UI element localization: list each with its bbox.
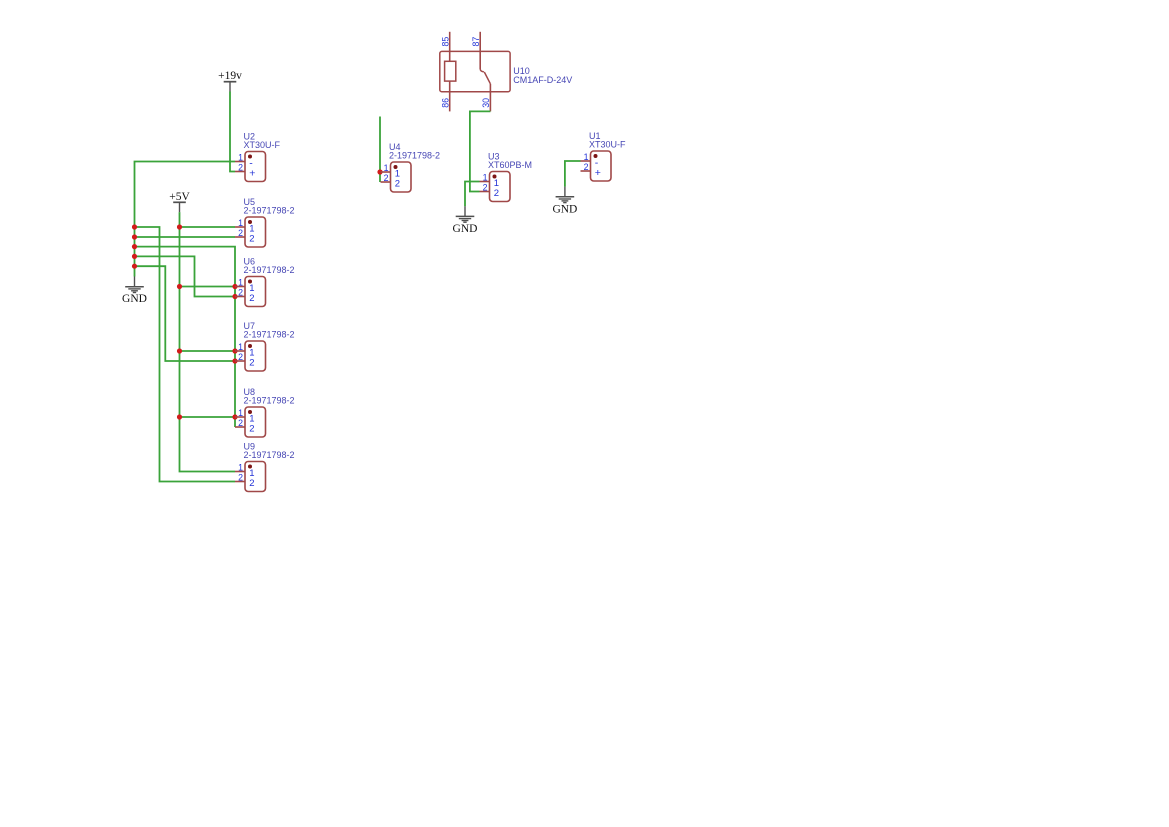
U10 switch contact hook bbox=[480, 69, 484, 72]
svg-text:30: 30 bbox=[481, 98, 491, 108]
wire GND tap 4 to U6 pin 2 bbox=[135, 256, 236, 296]
U10 pin 87 bbox=[479, 32, 481, 69]
svg-text:2: 2 bbox=[249, 233, 254, 244]
svg-text:2-1971798-2: 2-1971798-2 bbox=[389, 150, 440, 160]
svg-text:1: 1 bbox=[238, 278, 243, 288]
svg-text:2: 2 bbox=[249, 293, 254, 304]
U1 body bbox=[591, 151, 612, 181]
U2 pin-1 marker dot bbox=[248, 155, 252, 159]
U5 pin 2 stub bbox=[235, 236, 245, 238]
wire +5V tap to U5 pin 1 bbox=[180, 226, 236, 228]
svg-text:1: 1 bbox=[384, 163, 389, 173]
svg-text:2: 2 bbox=[249, 478, 254, 489]
U7 pin 1 stub bbox=[235, 350, 245, 352]
U8 body bbox=[245, 407, 266, 437]
svg-text:2-1971798-2: 2-1971798-2 bbox=[244, 205, 295, 215]
junction +5V at U7 pin 1 row bbox=[177, 348, 182, 353]
svg-text:2-1971798-2: 2-1971798-2 bbox=[244, 329, 295, 339]
svg-text:XT60PB-M: XT60PB-M bbox=[488, 160, 532, 170]
svg-text:XT30U-F: XT30U-F bbox=[589, 139, 626, 149]
svg-text:1: 1 bbox=[584, 152, 589, 162]
wire +5V bus down to U9 pin 1 bbox=[180, 212, 236, 471]
connector U6 (2-1971798-2) bbox=[235, 256, 295, 306]
svg-text:GND: GND bbox=[453, 223, 478, 235]
svg-text:GND: GND bbox=[122, 293, 147, 305]
U6 pin 2 stub bbox=[235, 296, 245, 298]
svg-text:2: 2 bbox=[238, 418, 243, 428]
junction GND bus tap 2 bbox=[132, 234, 137, 239]
ground symbol GND (left bus) bbox=[122, 277, 147, 306]
U10 pin 30 bbox=[489, 84, 491, 112]
wire +5V tap to U7 pin 1 bbox=[180, 350, 236, 352]
U9 pin 1 stub bbox=[235, 471, 245, 473]
wire stub into U4 pins (dangling at top) bbox=[379, 117, 381, 183]
power symbol +5V bbox=[169, 191, 190, 212]
svg-text:CM1AF-D-24V: CM1AF-D-24V bbox=[513, 75, 572, 85]
U9 pin 2 stub bbox=[235, 481, 245, 483]
U7 pin-1 marker dot bbox=[248, 344, 252, 348]
connector U7 (2-1971798-2) bbox=[235, 321, 295, 371]
U2 body bbox=[245, 152, 266, 182]
U4 pin-1 marker dot bbox=[394, 165, 398, 169]
connector U9 (2-1971798-2) bbox=[235, 441, 295, 491]
svg-text:+5V: +5V bbox=[169, 191, 190, 203]
connector U2 (XT30U-F) bbox=[235, 131, 281, 181]
U3 body bbox=[490, 172, 511, 202]
connector U3 (XT60PB-M) bbox=[480, 151, 533, 201]
svg-text:87: 87 bbox=[471, 37, 481, 47]
svg-text:+19v: +19v bbox=[218, 70, 242, 82]
connector U8 (2-1971798-2) bbox=[235, 387, 295, 437]
svg-text:2-1971798-2: 2-1971798-2 bbox=[244, 450, 295, 460]
svg-text:2: 2 bbox=[249, 423, 254, 434]
junction +5V at U8 pin 1 row bbox=[177, 414, 182, 419]
U8 pin-1 marker dot bbox=[248, 410, 252, 414]
U6 body bbox=[245, 277, 266, 307]
wire U3 pin 1 to GND bbox=[465, 182, 480, 207]
U10 coil bbox=[445, 61, 456, 81]
svg-text:2: 2 bbox=[238, 288, 243, 298]
junction at U7 pin 1 bbox=[232, 348, 237, 353]
U5 body bbox=[245, 217, 266, 247]
U10 body bbox=[440, 51, 510, 91]
svg-text:2: 2 bbox=[238, 163, 243, 173]
wire +5V tap to U8 pin 1 bbox=[180, 416, 236, 418]
junction GND bus tap 4 bbox=[132, 254, 137, 259]
svg-text:1: 1 bbox=[238, 342, 243, 352]
svg-text:XT30U-F: XT30U-F bbox=[244, 140, 281, 150]
U2 pin 2 stub bbox=[235, 171, 245, 173]
U1 pin 1 stub bbox=[581, 160, 591, 162]
svg-text:86: 86 bbox=[440, 98, 450, 108]
U5 pin 1 stub bbox=[235, 226, 245, 228]
U4 pin 1 stub bbox=[381, 171, 391, 173]
junction at U8 pin 1 bbox=[232, 414, 237, 419]
ground symbol GND (below U1) bbox=[552, 187, 577, 216]
svg-text:2: 2 bbox=[238, 228, 243, 238]
svg-text:1: 1 bbox=[238, 463, 243, 473]
wire U2 pin 1 to GND bus (net GND) bbox=[135, 162, 236, 277]
relay U10 (CM1AF-D-24V) bbox=[440, 32, 573, 112]
junction GND bus tap 3 bbox=[132, 244, 137, 249]
svg-text:GND: GND bbox=[552, 203, 577, 215]
connector U5 (2-1971798-2) bbox=[235, 197, 295, 247]
U6 pin-1 marker dot bbox=[248, 280, 252, 284]
svg-text:2: 2 bbox=[384, 173, 389, 183]
connector U4 (2-1971798-2) bbox=[381, 142, 441, 192]
svg-text:2: 2 bbox=[395, 178, 400, 189]
U1 pin 2 stub bbox=[581, 170, 591, 172]
U10 pin 85 bbox=[449, 32, 451, 62]
U4 pin 2 stub bbox=[381, 181, 391, 183]
wire relay pin 30 to U3 pin 2 bbox=[470, 111, 491, 191]
U1 pin-1 marker dot bbox=[594, 154, 598, 158]
junction at U6 pin 2 bbox=[232, 294, 237, 299]
svg-text:2-1971798-2: 2-1971798-2 bbox=[244, 395, 295, 405]
power symbol +19v bbox=[218, 70, 242, 91]
wire GND tap 1 to U9 pin 2 bbox=[135, 227, 236, 482]
svg-text:1: 1 bbox=[238, 408, 243, 418]
U2 pin 1 stub bbox=[235, 161, 245, 163]
svg-text:2: 2 bbox=[584, 162, 589, 172]
junction GND bus tap 5 bbox=[132, 264, 137, 269]
U6 pin 1 stub bbox=[235, 286, 245, 288]
junction +5V at U6 pin 1 row bbox=[177, 284, 182, 289]
U4 body bbox=[391, 162, 412, 192]
U3 pin 1 stub bbox=[480, 181, 490, 183]
wire +5V tap to U6 pin 1 bbox=[180, 286, 236, 288]
junction +5V at U5 pin 1 row bbox=[177, 224, 182, 229]
U10 switch blade bbox=[484, 72, 490, 84]
svg-text:2: 2 bbox=[238, 473, 243, 483]
junction at U4 pin 1 bbox=[377, 169, 382, 174]
U10 pin 86 bbox=[449, 81, 451, 111]
svg-text:+: + bbox=[595, 167, 601, 179]
U3 pin-1 marker dot bbox=[493, 175, 497, 179]
U9 body bbox=[245, 462, 266, 492]
junction at U7 pin 2 bbox=[232, 358, 237, 363]
svg-text:1: 1 bbox=[238, 218, 243, 228]
ground symbol GND (below U3) bbox=[453, 206, 478, 235]
U5 pin-1 marker dot bbox=[248, 220, 252, 224]
svg-text:+: + bbox=[249, 167, 255, 179]
svg-text:85: 85 bbox=[440, 37, 450, 47]
wire U1 pin 1 to GND bbox=[565, 161, 581, 187]
svg-text:2: 2 bbox=[249, 357, 254, 368]
U8 pin 1 stub bbox=[235, 416, 245, 418]
junction at U6 pin 1 bbox=[232, 284, 237, 289]
U9 pin-1 marker dot bbox=[248, 465, 252, 469]
wire +19v to U2 pin 2 bbox=[230, 92, 235, 172]
U7 body bbox=[245, 341, 266, 371]
svg-text:2: 2 bbox=[494, 188, 499, 199]
junction GND bus tap 1 bbox=[132, 224, 137, 229]
svg-text:2: 2 bbox=[238, 352, 243, 362]
wire GND tap 5 to U7 pin 2 bbox=[135, 266, 236, 361]
U8 pin 2 stub bbox=[235, 426, 245, 428]
svg-text:1: 1 bbox=[483, 173, 488, 183]
connector U1 (XT30U-F) bbox=[581, 131, 627, 181]
U3 pin 2 stub bbox=[480, 191, 490, 193]
wire GND tap 3 to vertical bus x235 ending at U8 pin 2 bbox=[135, 247, 236, 427]
svg-text:2-1971798-2: 2-1971798-2 bbox=[244, 265, 295, 275]
svg-text:1: 1 bbox=[238, 153, 243, 163]
U7 pin 2 stub bbox=[235, 360, 245, 362]
wire GND tap 2 to U5 pin 2 bbox=[135, 236, 236, 238]
svg-text:2: 2 bbox=[483, 183, 488, 193]
